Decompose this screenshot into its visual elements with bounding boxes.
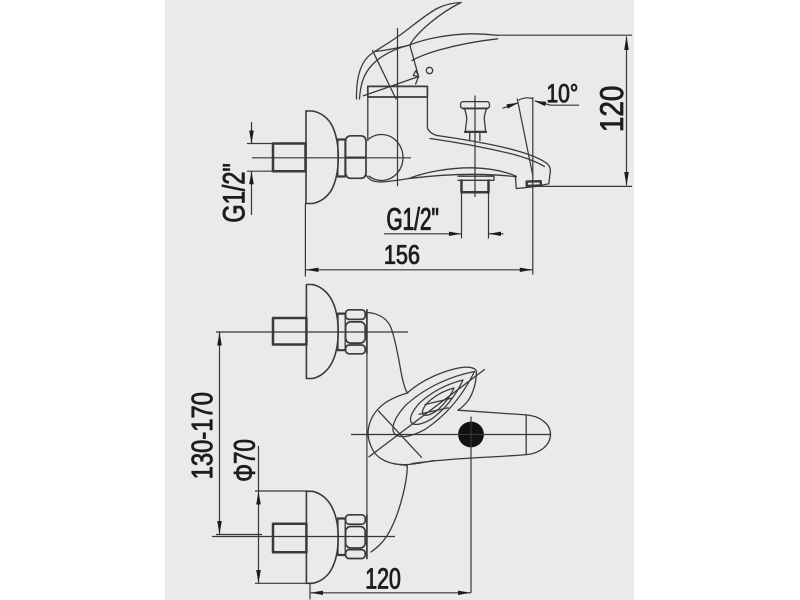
phi70 dim line [258, 446, 260, 583]
label 120 right vertical [600, 87, 623, 130]
top nut right edge [366, 310, 368, 354]
top mount pipe [273, 318, 306, 345]
arrow 156 right [520, 268, 533, 272]
130-170 bottom tick [216, 534, 262, 536]
10deg vertical ext [532, 97, 534, 275]
diverter knob underline [463, 107, 488, 109]
lower tube right edge [371, 466, 407, 552]
escutcheon flat edge [305, 111, 307, 204]
arrow 156 left [306, 268, 319, 272]
arrow 120 top [624, 36, 629, 50]
handle lever bottom edge [412, 39, 498, 61]
body bottom curve [367, 176, 410, 182]
spout front bottom edge [412, 455, 526, 464]
handle chord 2 [425, 398, 452, 404]
spout back top edge [430, 139, 545, 167]
top nut facet bottom [346, 345, 366, 354]
bottom nut facet top [346, 515, 366, 524]
bottom mount bell [306, 491, 338, 583]
wall projection line [366, 313, 368, 515]
156 dim line [305, 269, 532, 271]
bottom mount ring [338, 519, 345, 556]
handle crescent inner edge [410, 3, 461, 46]
handle chord [419, 408, 448, 415]
arrow G12 outlet right [489, 232, 501, 236]
bottom mount pipe [273, 524, 306, 553]
label G1/2 horizontal [388, 207, 439, 230]
spout aerator [527, 181, 541, 186]
handle base inner curve [360, 45, 410, 99]
handle oval inner [422, 388, 454, 415]
handle diagonal axis [369, 370, 485, 457]
diverter knob right side [484, 108, 486, 131]
bottom view centerline horizontal [351, 434, 550, 436]
cartridge right edge [410, 45, 419, 84]
arrow G12 left down [249, 131, 254, 144]
shower outlet body [462, 181, 489, 193]
handle oval mid [411, 380, 463, 424]
spout underside outer arc [409, 168, 516, 179]
arrow phi70 bottom [256, 570, 261, 583]
ext line spout bottom [537, 185, 633, 187]
arrow 130-170 top [217, 332, 222, 345]
cartridge knob circle [426, 67, 432, 73]
hex nut lower [346, 158, 366, 178]
wall pipe body [273, 144, 306, 172]
body left edge [367, 97, 369, 141]
spout cap arc [526, 415, 550, 455]
10deg slanted line [517, 99, 533, 177]
shower outlet flange [458, 176, 494, 180]
top nut facet top [346, 310, 366, 320]
arrowheads [217, 36, 629, 595]
diverter knob left side [464, 108, 466, 131]
top mount ring [338, 314, 345, 351]
centerline top mount front [216, 331, 408, 333]
body right edge and shoulder [427, 97, 437, 136]
arrow 10deg right [534, 101, 546, 106]
body cross line [379, 411, 422, 457]
top mount bell [306, 285, 338, 379]
hex nut upper [346, 136, 366, 158]
diverter knob bottom line [465, 131, 486, 133]
cartridge kink [413, 71, 418, 77]
cartridge diagonal 2 [363, 77, 418, 96]
arrow 120b left [310, 591, 323, 595]
arrow G12 outlet left [449, 232, 461, 236]
centerline bottom mount front [212, 536, 395, 538]
label 130-170 vertical [192, 393, 213, 478]
top nut facet mid [346, 322, 366, 343]
handle lever top edge [410, 34, 498, 45]
shower outlet ext lines [462, 193, 489, 239]
spout end face [515, 172, 550, 189]
body outline [368, 367, 476, 464]
10deg arc [519, 98, 533, 100]
G12 left dim line [251, 122, 253, 215]
handle outer sweep [356, 3, 461, 100]
spout underside inner arc [409, 174, 516, 178]
collar band [368, 86, 428, 97]
dim 120 line [626, 37, 628, 186]
phi70 ticks [255, 491, 313, 583]
bottom nut facet bottom [346, 550, 366, 559]
bottom nut right edge [366, 515, 368, 559]
label 120 bottom [367, 568, 400, 589]
arrow 10deg left [506, 103, 518, 109]
dot vertical line [470, 417, 472, 593]
dim 120 bottom left ext [309, 584, 311, 600]
body ball [369, 135, 403, 181]
bottom nut facet mid [346, 527, 366, 549]
dim 130-170 line [219, 332, 221, 535]
arrow 120 bottom [624, 172, 629, 186]
shower hole dot [458, 422, 484, 448]
wall pipe ticks [248, 144, 274, 172]
10deg leader [535, 101, 579, 105]
cartridge top edge [375, 45, 410, 52]
cartridge diagonal 1 [373, 51, 397, 100]
label G1/2 vertical [222, 164, 245, 221]
arrow phi70 top [256, 491, 261, 504]
diverter stem [470, 133, 480, 141]
spout top edge [437, 136, 550, 172]
10deg left tail [503, 103, 518, 108]
spout front top edge [458, 410, 526, 415]
label 10deg [548, 84, 577, 103]
vertical centerline top view [397, 28, 399, 186]
diverter centerline [474, 96, 476, 198]
arrow 130-170 bottom [217, 521, 222, 534]
dim 120 bottom line [310, 592, 471, 594]
lower tube left join [400, 465, 407, 466]
arrow G12 left up [249, 171, 254, 184]
label 156 [386, 245, 420, 264]
diverter knob cap [461, 102, 490, 109]
wall escutcheon bell [306, 111, 338, 204]
spout cap line [525, 415, 527, 455]
washer ring [338, 140, 345, 177]
ext line handle tip [497, 34, 632, 36]
handle oval outer [393, 372, 475, 437]
upper tube right edge [368, 313, 407, 394]
G12 bottom dim line [384, 233, 504, 235]
156 left ext [304, 204, 306, 277]
centerline top mount side [252, 157, 411, 159]
label phi70 vertical [234, 440, 255, 481]
arrow 120b right [458, 591, 471, 595]
